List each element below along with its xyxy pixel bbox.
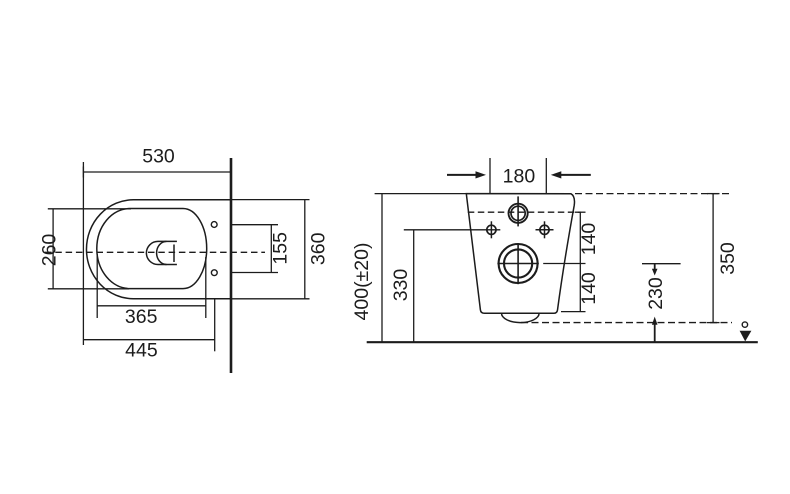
extension line 155 top: [231, 224, 278, 226]
dimension line 530: [83, 171, 231, 173]
drain horizontal crosshair: [497, 263, 538, 265]
toilet outer outline (top view): [86, 200, 231, 299]
left extension line (left edge, serves 530 and 445): [82, 162, 84, 345]
230 up arrow shaft: [654, 324, 656, 342]
svg-text:350: 350: [717, 242, 739, 275]
water inlet circle outer: [508, 204, 527, 223]
extension line 365 right: [205, 257, 207, 318]
180 right arrow shaft: [560, 174, 591, 176]
140 bottom tick / extension from body: [561, 311, 586, 313]
mounting hole upper (left view): [211, 222, 217, 228]
svg-text:180: 180: [503, 166, 536, 188]
230 up arrowhead: [652, 317, 658, 325]
svg-text:230: 230: [645, 277, 667, 310]
svg-text:365: 365: [125, 306, 158, 328]
drain circle outer: [499, 244, 538, 283]
top datum line solid: [375, 193, 572, 195]
350 dimension line: [712, 194, 714, 323]
extension line 260 bottom: [48, 288, 129, 290]
dimension line 360: [304, 200, 306, 299]
right hole horizontal crosshair: [536, 229, 554, 231]
tick left 530: [82, 167, 84, 178]
180 left arrowhead: [476, 171, 487, 178]
extension line 365 left: [96, 254, 98, 318]
mounting hole right (rear view): [540, 225, 549, 234]
230 down arrowhead: [652, 269, 658, 276]
svg-text:360: 360: [308, 232, 330, 265]
230 down arrow shaft: [654, 264, 656, 270]
flush outlet detail outer arc: [146, 241, 176, 264]
svg-text:330: 330: [390, 269, 412, 302]
flush outlet detail inner arc: [157, 241, 167, 264]
mounting hole left (rear view): [487, 225, 496, 234]
svg-text:445: 445: [125, 340, 158, 362]
dimension line 260: [52, 209, 54, 289]
dimension line 365: [97, 305, 205, 307]
water inlet circle inner: [511, 206, 525, 220]
dimension line 155: [270, 225, 272, 273]
centerline dashed (left view): [45, 251, 265, 253]
tick right 530: [230, 167, 232, 178]
180 right arrowhead: [551, 171, 562, 178]
140 middle tick / drain extension: [543, 263, 585, 265]
350 top tick: [707, 193, 720, 195]
extension line 155 bottom: [231, 272, 278, 274]
interior dashed line through inlet: [468, 211, 581, 213]
230 top reference line: [642, 263, 681, 265]
dimension line 400: [381, 194, 383, 343]
extension line 360 top: [231, 199, 310, 201]
left hole vertical crosshair: [490, 221, 492, 238]
drain vertical crosshair: [517, 245, 519, 284]
svg-text:155: 155: [270, 232, 292, 265]
toilet body outline (rear view): [466, 194, 574, 314]
extension line 445 right: [214, 299, 216, 352]
140 dimension line: [579, 212, 581, 311]
180 left arrow shaft: [447, 174, 477, 176]
svg-text:400(±20): 400(±20): [351, 243, 373, 321]
mounting hole lower (left view): [211, 270, 217, 276]
180 extension line right: [545, 158, 547, 194]
330 extension line top: [404, 229, 501, 231]
dimension line 330: [413, 230, 415, 342]
inlet vertical centerline: [517, 196, 519, 226]
floor datum filled triangle: [740, 331, 752, 342]
drain circle inner: [504, 249, 532, 277]
trap outlet half-ellipse: [502, 313, 540, 322]
svg-text:140: 140: [578, 272, 600, 305]
svg-text:530: 530: [142, 146, 175, 168]
toilet rim inner oval: [97, 209, 207, 289]
bottom datum dashed line: [521, 322, 732, 324]
floor datum small circle: [742, 322, 747, 327]
dimension line 445: [83, 339, 214, 341]
svg-text:260: 260: [39, 234, 61, 267]
top datum line dashed continuation: [575, 193, 732, 195]
floor line: [367, 341, 758, 343]
180 extension line left: [489, 158, 491, 194]
flush outlet detail right bar: [173, 245, 175, 263]
wall line (left view): [230, 158, 233, 373]
extension line 360 bottom: [231, 298, 310, 300]
350 bottom tick: [707, 322, 720, 324]
right hole vertical crosshair: [544, 221, 546, 238]
140 top tick: [575, 211, 586, 213]
extension line 260 top: [48, 208, 131, 210]
svg-text:140: 140: [578, 223, 600, 256]
